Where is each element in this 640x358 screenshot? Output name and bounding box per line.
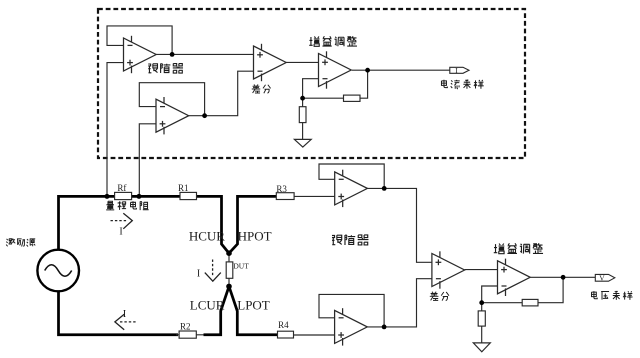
- wire: R4 to follower A6 + input: [294, 334, 335, 336]
- wire: follower A5 output to diff A7 + input: [367, 188, 432, 262]
- svg-text:LCUR: LCUR: [190, 298, 225, 313]
- node: Rf left junction: [105, 194, 110, 199]
- connector V (voltage sample output): [595, 274, 615, 281]
- node: A5 output junction: [382, 186, 387, 191]
- wire: DUT top lead: [228, 253, 230, 262]
- wire: follower A1 feedback loop: [107, 26, 172, 55]
- dashed box (current sense section): [98, 9, 525, 158]
- label: current sampling: [441, 79, 483, 88]
- wire: HPOT branch to R3: [229, 196, 279, 253]
- node: A2 output junction: [202, 113, 207, 118]
- wire: R2 thin leads: [176, 334, 205, 336]
- resistor R3: [276, 193, 294, 200]
- resistor (gain A8 feedback): [522, 299, 538, 306]
- node: A6 output junction: [382, 325, 387, 330]
- wire: gain A4 feedback resistor right lead up to output: [360, 70, 368, 98]
- wire: follower A6 output to diff A7 - input: [367, 279, 432, 327]
- connector I (current sample output): [450, 67, 469, 73]
- node: A4 feedback junction: [300, 96, 305, 101]
- label: excitation source: [6, 238, 35, 246]
- wire: gain A8 feedback resistor left lead: [482, 302, 523, 304]
- label: range resistor: [106, 201, 148, 210]
- resistor (gain A4 to ground): [299, 107, 306, 123]
- wire: DUT bottom lead: [228, 278, 230, 286]
- op-amp follower A1: [124, 36, 157, 73]
- op-amp gain A4: [319, 51, 352, 88]
- svg-text:I: I: [197, 269, 200, 280]
- wire: follower A5 feedback loop: [319, 164, 384, 188]
- op-amp diff A7: [432, 251, 465, 288]
- wire: feedback node down to resistor and ground: [302, 98, 304, 107]
- wire: gain A4 output to connector I: [352, 69, 450, 71]
- label: diff (bottom): [430, 292, 449, 301]
- svg-text:R1: R1: [178, 183, 189, 193]
- wire: follower A6 feedback loop: [319, 294, 384, 327]
- wire: R3 to follower A5 + input: [294, 195, 335, 197]
- svg-text:HCUR: HCUR: [189, 229, 225, 244]
- op-amp follower A5: [335, 170, 368, 207]
- svg-text:R3: R3: [276, 184, 287, 194]
- svg-text:V: V: [599, 273, 605, 282]
- svg-text:R4: R4: [278, 320, 289, 330]
- current arrow I (through DUT, pointing down): [205, 260, 221, 282]
- wire: gain A4 - input to feedback node: [303, 79, 319, 99]
- current arrow I (return path, pointing left): [115, 314, 137, 329]
- resistor R1: [180, 192, 197, 199]
- wire: R2 to LCUR corner up to lower DUT node: [204, 286, 230, 334]
- svg-text:Rf: Rf: [117, 183, 126, 193]
- wire: follower A1 + input down to Rf left node: [107, 63, 124, 197]
- wire: LPOT branch to R4: [229, 286, 279, 334]
- wire: A8 feedback node down to resistor and ground: [481, 303, 483, 312]
- resistor (gain A8 to ground): [478, 311, 485, 326]
- label: gain adjust (bottom): [494, 243, 543, 253]
- label: follower (bottom): [332, 235, 368, 245]
- op-amp gain A8: [498, 259, 531, 296]
- op-amp follower A6: [335, 308, 368, 345]
- node: A8 feedback junction: [479, 300, 484, 305]
- node: A4 output junction: [365, 68, 370, 73]
- wire: follower A2 feedback loop: [139, 83, 204, 116]
- label: diff (top): [252, 85, 271, 94]
- wire: gain A8 feedback resistor right lead up to output: [538, 277, 563, 302]
- DUT resistor: [226, 262, 233, 278]
- svg-text:I: I: [123, 309, 127, 320]
- wire: main loop top (source to HCUR corner): [59, 196, 230, 253]
- svg-text:LPOT: LPOT: [237, 298, 270, 313]
- resistor R4: [278, 331, 294, 338]
- wire: gain A8 output to connector V: [531, 276, 596, 278]
- resistor R2: [179, 331, 196, 338]
- op-amp diff A3: [254, 44, 287, 81]
- excitation source (AC): [37, 250, 79, 292]
- label: voltage sampling: [591, 291, 632, 300]
- svg-text:R2: R2: [180, 322, 191, 332]
- wire: gain A4 feedback resistor left lead: [303, 97, 344, 99]
- label: follower (top): [148, 64, 183, 74]
- wire: diff A7 output to gain A8 + input: [465, 269, 498, 271]
- ground (current channel): [294, 139, 311, 147]
- node: A1 output junction: [170, 52, 175, 57]
- resistor (gain A4 feedback): [344, 95, 361, 101]
- node: DUT top junction: [226, 250, 232, 256]
- ground (voltage channel): [473, 343, 490, 352]
- label: gain adjust (top): [309, 36, 357, 46]
- wire: gain A8 - input to feedback node: [482, 286, 498, 303]
- node: Rf right junction: [137, 194, 142, 199]
- resistor Rf: [115, 192, 132, 199]
- svg-text:DUT: DUT: [233, 261, 249, 270]
- node: DUT bottom junction: [226, 284, 232, 290]
- svg-text:I: I: [119, 226, 122, 237]
- wire: diff A3 output to gain A4 + input: [286, 61, 319, 63]
- current arrow I (through Rf, pointing right): [111, 213, 133, 229]
- wire: follower A2 + input down to Rf right node: [139, 124, 156, 197]
- wire: main loop bottom (source to R2): [59, 291, 179, 335]
- node: A8 output junction: [561, 275, 566, 280]
- wire: follower A2 output to diff A3 - input: [189, 71, 254, 116]
- op-amp follower A2: [156, 97, 189, 134]
- svg-text:HPOT: HPOT: [238, 229, 272, 244]
- wire: follower A1 output to diff A3 + input: [156, 53, 254, 55]
